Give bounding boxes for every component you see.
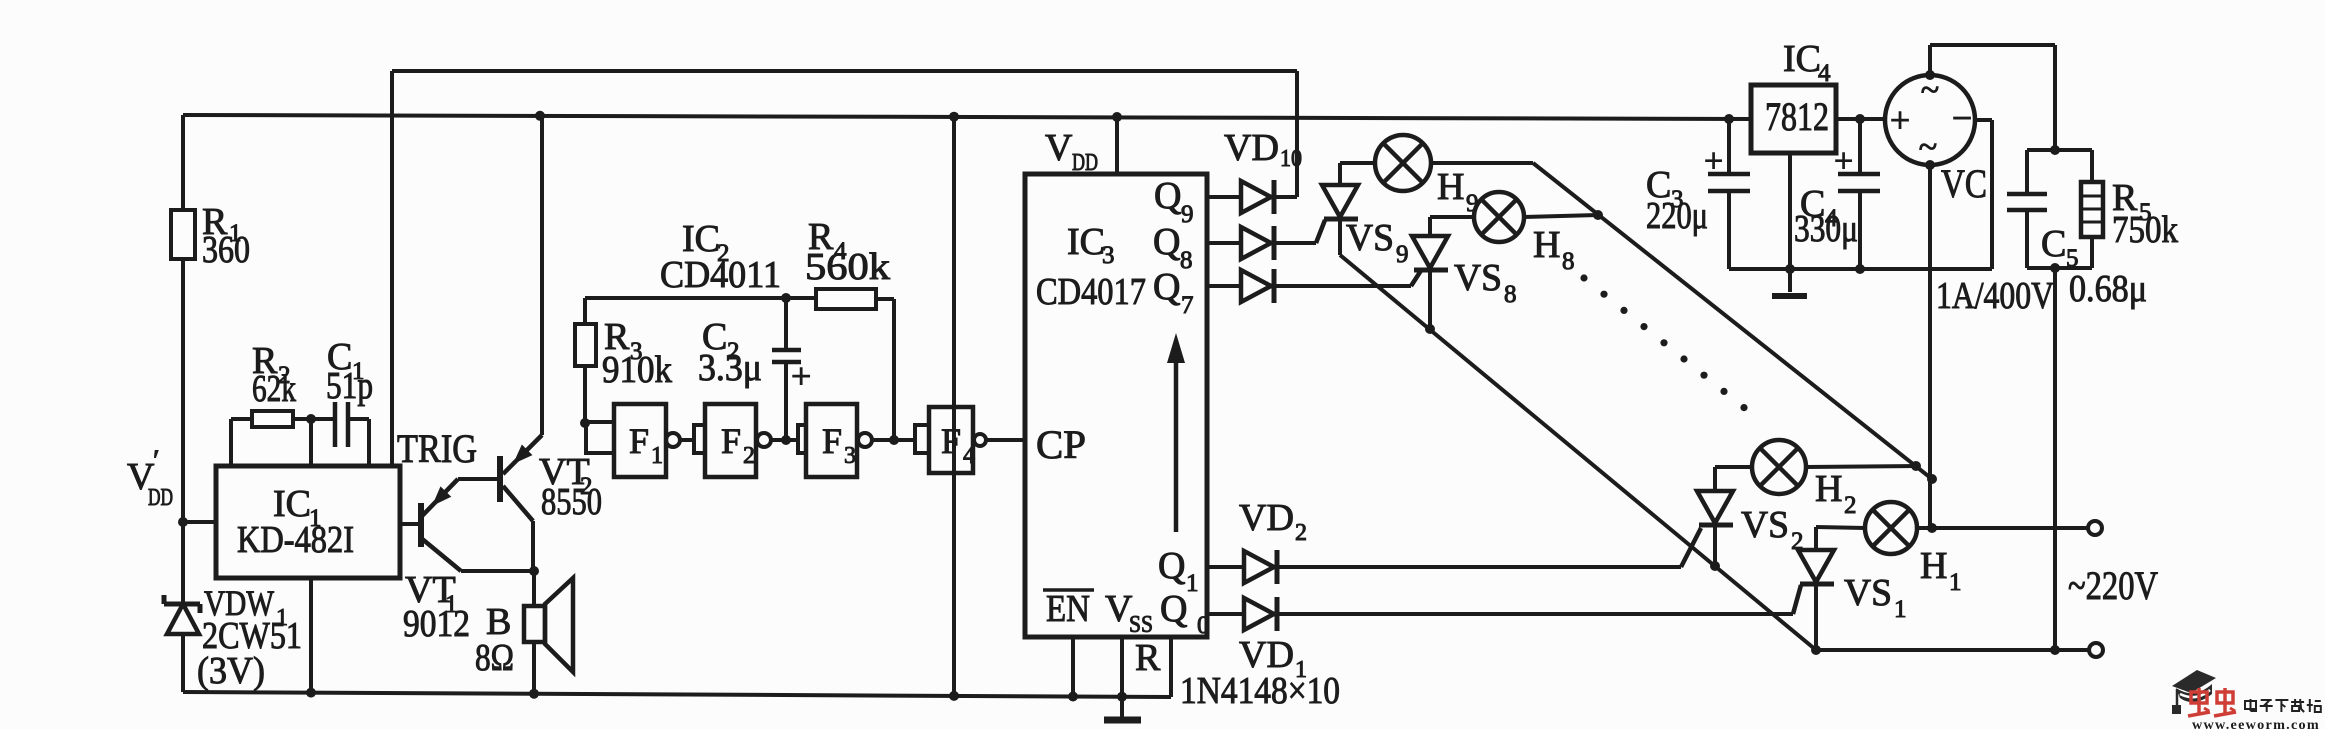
- svg-text:VS: VS: [1454, 257, 1502, 299]
- svg-text:F: F: [721, 421, 741, 461]
- svg-text:62k: 62k: [252, 368, 296, 410]
- svg-text:9: 9: [1396, 241, 1409, 268]
- svg-text:VS: VS: [1844, 572, 1892, 614]
- svg-text:Q: Q: [1158, 545, 1185, 587]
- svg-text:C: C: [2041, 223, 2066, 265]
- svg-text:4: 4: [963, 443, 975, 469]
- svg-text:www.eeworm.com: www.eeworm.com: [2192, 717, 2320, 729]
- svg-text:2: 2: [1295, 520, 1307, 546]
- svg-text:TRIG: TRIG: [397, 426, 477, 471]
- svg-text:8: 8: [1562, 248, 1575, 275]
- svg-text:220μ: 220μ: [1646, 195, 1708, 237]
- svg-text:H: H: [1437, 166, 1464, 208]
- svg-text:2: 2: [1844, 492, 1857, 519]
- svg-text:−: −: [1952, 98, 1972, 138]
- svg-text:51p: 51p: [326, 365, 373, 407]
- svg-text:2: 2: [1791, 528, 1804, 555]
- svg-text:9: 9: [1181, 201, 1194, 228]
- svg-text:VD: VD: [1239, 497, 1294, 539]
- svg-text:1: 1: [651, 443, 663, 469]
- svg-text:Q: Q: [1153, 266, 1180, 308]
- svg-text:750k: 750k: [2112, 209, 2178, 251]
- svg-text:0: 0: [1197, 612, 1210, 639]
- svg-text:7812: 7812: [1765, 94, 1829, 139]
- svg-text:CD4011: CD4011: [660, 254, 781, 296]
- svg-text:IC: IC: [1783, 38, 1821, 80]
- svg-text:8: 8: [1180, 247, 1193, 274]
- svg-text:F: F: [941, 421, 961, 461]
- svg-text:1A/400V: 1A/400V: [1936, 275, 2054, 317]
- svg-text:EN: EN: [1046, 588, 1090, 630]
- svg-text:VS: VS: [1741, 504, 1789, 546]
- svg-text:DD: DD: [148, 485, 173, 511]
- svg-text:8550: 8550: [541, 481, 602, 523]
- svg-text:560k: 560k: [805, 246, 890, 288]
- svg-text:10: 10: [1280, 146, 1302, 172]
- svg-text:2: 2: [743, 443, 755, 469]
- svg-text:1: 1: [1949, 569, 1962, 596]
- svg-text:3: 3: [1102, 242, 1115, 269]
- svg-text:4: 4: [1818, 60, 1831, 87]
- svg-text:8: 8: [1504, 281, 1517, 308]
- svg-text:V: V: [1045, 127, 1073, 169]
- svg-text:1: 1: [1186, 570, 1199, 597]
- svg-text:Q: Q: [1154, 175, 1181, 217]
- svg-text:′: ′: [153, 444, 160, 477]
- svg-text:F: F: [629, 421, 649, 461]
- svg-text:330μ: 330μ: [1794, 208, 1858, 250]
- svg-text:+: +: [791, 356, 811, 396]
- svg-text:1N4148×10: 1N4148×10: [1180, 670, 1340, 712]
- svg-text:910k: 910k: [602, 349, 672, 391]
- svg-text:VS: VS: [1346, 217, 1394, 259]
- svg-text:Q: Q: [1160, 588, 1187, 630]
- svg-text:Q: Q: [1153, 221, 1180, 263]
- svg-text:(3V): (3V): [197, 650, 265, 692]
- svg-text:+: +: [1890, 100, 1910, 140]
- svg-text:~: ~: [1921, 72, 1939, 109]
- svg-text:+: +: [1704, 143, 1723, 180]
- svg-text:9012: 9012: [403, 603, 470, 645]
- svg-text:SS: SS: [1129, 612, 1153, 638]
- svg-text:0.68μ: 0.68μ: [2069, 268, 2147, 310]
- svg-text:3: 3: [844, 443, 856, 469]
- svg-text:KD-482I: KD-482I: [237, 519, 354, 561]
- svg-text:~: ~: [1919, 129, 1937, 166]
- svg-text:3.3μ: 3.3μ: [698, 347, 762, 389]
- svg-text:VC: VC: [1941, 161, 1987, 206]
- svg-text:CP: CP: [1036, 422, 1086, 467]
- svg-text:F: F: [822, 421, 842, 461]
- svg-text:9: 9: [1466, 190, 1479, 217]
- svg-text:~220V: ~220V: [2068, 563, 2158, 608]
- svg-text:360: 360: [202, 229, 250, 271]
- svg-text:VD: VD: [1224, 127, 1279, 169]
- svg-text:H: H: [1815, 468, 1842, 510]
- svg-text:H: H: [1920, 545, 1947, 587]
- svg-text:+: +: [1834, 143, 1853, 180]
- svg-text:R: R: [1135, 637, 1161, 679]
- svg-text:H: H: [1533, 224, 1560, 266]
- svg-text:DD: DD: [1072, 150, 1098, 176]
- svg-text:7: 7: [1181, 292, 1194, 319]
- svg-text:IC: IC: [1067, 221, 1105, 263]
- svg-text:1: 1: [1894, 596, 1907, 623]
- svg-text:8Ω: 8Ω: [475, 637, 514, 679]
- svg-text:CD4017: CD4017: [1036, 271, 1146, 313]
